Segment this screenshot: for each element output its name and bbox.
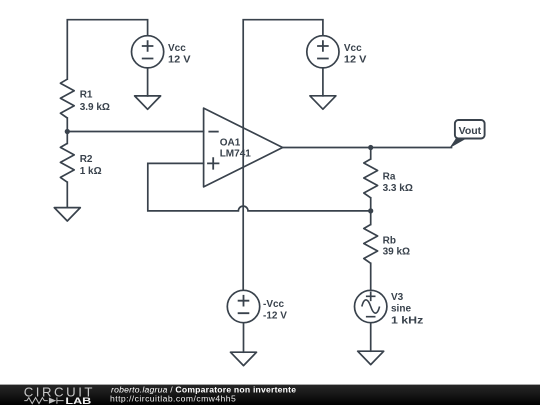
svg-text:http://circuitlab.com/cmw4hh5: http://circuitlab.com/cmw4hh5	[110, 393, 236, 403]
svg-text:1 kHz: 1 kHz	[391, 316, 423, 327]
svg-text:Vout: Vout	[459, 125, 482, 137]
svg-text:3.9 kΩ: 3.9 kΩ	[80, 102, 110, 113]
svg-text:Ra: Ra	[383, 172, 396, 183]
svg-text:LAB: LAB	[65, 396, 91, 405]
svg-text:OA1: OA1	[220, 138, 241, 149]
svg-text:R1: R1	[80, 90, 93, 101]
svg-text:Vcc: Vcc	[344, 43, 362, 54]
svg-text:Rb: Rb	[383, 236, 396, 247]
svg-text:1 kΩ: 1 kΩ	[80, 166, 102, 177]
svg-text:LM741: LM741	[220, 148, 252, 159]
svg-text:Vcc: Vcc	[168, 43, 186, 54]
svg-text:-Vcc: -Vcc	[263, 299, 285, 310]
svg-text:R2: R2	[80, 154, 93, 165]
svg-text:sine: sine	[391, 304, 411, 315]
svg-text:-12 V: -12 V	[263, 310, 287, 321]
svg-text:12 V: 12 V	[344, 55, 367, 66]
svg-text:V3: V3	[391, 292, 404, 303]
svg-text:39 kΩ: 39 kΩ	[383, 247, 410, 258]
svg-text:12 V: 12 V	[168, 55, 191, 66]
svg-text:3.3 kΩ: 3.3 kΩ	[383, 183, 413, 194]
